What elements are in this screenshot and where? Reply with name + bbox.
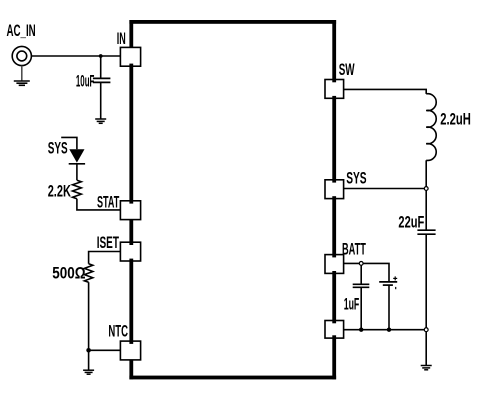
svg-text:SYS: SYS: [48, 140, 68, 158]
svg-text:BATT: BATT: [342, 240, 366, 258]
svg-text:SW: SW: [339, 61, 355, 79]
svg-text:2.2K: 2.2K: [48, 182, 71, 200]
svg-text:ISET: ISET: [97, 234, 119, 252]
svg-text:10uF: 10uF: [76, 73, 95, 91]
svg-text:IN: IN: [117, 30, 126, 48]
svg-text:STAT: STAT: [97, 193, 119, 211]
svg-text:500Ω: 500Ω: [52, 265, 85, 283]
svg-text:SYS: SYS: [346, 169, 366, 187]
svg-text:1uF: 1uF: [344, 296, 360, 314]
svg-text:AC_IN: AC_IN: [7, 22, 36, 40]
svg-text:2.2uH: 2.2uH: [440, 111, 471, 129]
svg-text:NTC: NTC: [108, 323, 128, 341]
svg-text:22uF: 22uF: [398, 214, 424, 232]
